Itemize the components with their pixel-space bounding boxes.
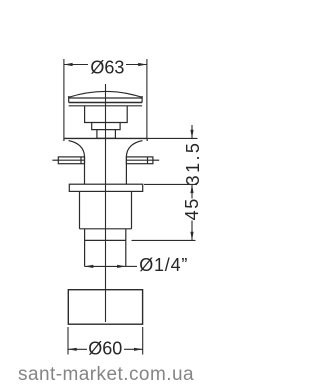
thread boundary line	[85, 239, 126, 241]
right extension line top (31.5 upper)	[148, 137, 198, 139]
threaded pipe left edge	[84, 229, 86, 267]
dimension Ø1/4 arrow left	[85, 265, 94, 268]
left screw tab stub	[52, 159, 58, 161]
cap bottom line	[69, 102, 142, 104]
svg-text:Ø60: Ø60	[88, 339, 122, 359]
dimension Ø63 line	[64, 64, 88, 66]
svg-text:Ø63: Ø63	[90, 58, 124, 78]
dimension Ø60 extension line right	[142, 327, 144, 355]
cap left edge	[68, 96, 70, 103]
dimension Ø1/4 arrow right	[117, 265, 126, 268]
cap right edge	[141, 96, 143, 103]
upper tube right edge	[125, 157, 127, 185]
dimension Ø60 extension line left	[67, 327, 69, 355]
svg-text:31.5: 31.5	[183, 141, 203, 186]
svg-text:45: 45	[182, 197, 202, 220]
flange disc top line	[64, 137, 147, 139]
dim 31.5 top arrow (outside, pointing down)	[191, 125, 193, 138]
right screw tab body	[126, 157, 152, 164]
centerline axis	[105, 84, 107, 322]
dimension Ø63 arrow left	[64, 63, 73, 66]
upper tube left edge	[84, 157, 86, 185]
neck step 3	[97, 130, 116, 139]
nut section left edge	[79, 191, 81, 228]
svg-text:Ø1/4”: Ø1/4”	[139, 255, 188, 275]
dimension Ø63 arrow right	[138, 63, 147, 66]
threaded pipe right edge	[125, 229, 127, 267]
dimension Ø63 extension line right	[146, 59, 148, 138]
dimension Ø60 arrow left	[68, 348, 77, 351]
watermark sant-market.com.ua	[18, 365, 194, 384]
dim 45 bottom arrow (pointing down at y=240.4)	[191, 221, 193, 241]
bell curve right	[126, 141, 142, 157]
right extension line bottom (45 lower)	[132, 239, 196, 241]
nut section bottom line	[80, 228, 132, 230]
neck step 1	[85, 106, 128, 123]
nut section right edge	[131, 191, 133, 228]
dimension Ø60 arrow right	[134, 348, 143, 351]
neck step 2	[92, 123, 120, 130]
dimension Ø60 line	[68, 348, 87, 350]
right extension line middle	[144, 183, 197, 185]
flange disc right lip	[146, 138, 148, 141]
cap chord line	[69, 97, 142, 99]
slip ring flange	[69, 184, 142, 191]
dimension Ø1/4 line	[85, 265, 126, 267]
flange disc left lip	[63, 138, 65, 141]
dimension Ø63 extension line left	[63, 59, 65, 138]
cap dome arc	[69, 91, 142, 97]
dim 45 top arrow (pointing up at y=184.4)	[191, 184, 193, 198]
right screw tab stub	[153, 159, 159, 161]
left screw tab body	[58, 157, 84, 164]
bell curve left	[69, 141, 85, 157]
bottom cylinder	[68, 290, 142, 325]
cap underside line	[69, 105, 142, 107]
